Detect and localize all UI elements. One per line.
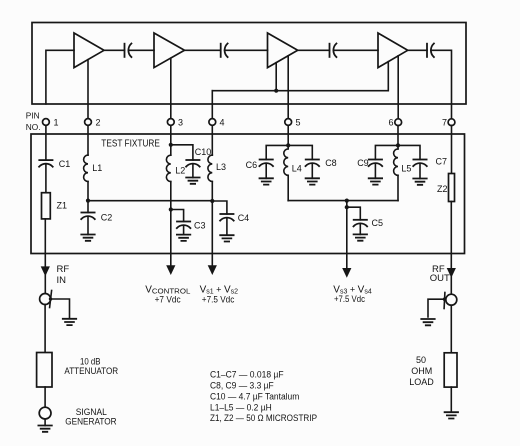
wire bias bus pin4 to U1D (212, 62, 388, 91)
inductor L4 (284, 149, 288, 175)
svg-text:4: 4 (220, 118, 225, 128)
VCONTROL direction arrow (166, 265, 175, 275)
wire junction to L2 (170, 145, 172, 155)
wire Z2 to RF OUT connector (450, 202, 452, 295)
svg-text:C7: C7 (436, 156, 448, 166)
capacitor C1 (39, 160, 53, 167)
wire U1C to pin 5 (287, 56, 289, 119)
wire U1D output to coupling cap (408, 49, 427, 51)
svg-text:L5: L5 (401, 163, 411, 173)
ground (63, 319, 76, 325)
wire U1C output to coupling cap (298, 49, 330, 51)
ground (413, 179, 426, 185)
ground (260, 178, 273, 184)
svg-text:50: 50 (416, 355, 426, 365)
wire attenuator to signal generator (44, 387, 46, 407)
wire junction to C4 (212, 201, 227, 214)
wire junction to C8 (288, 145, 312, 159)
svg-text:TEST FIXTURE: TEST FIXTURE (101, 138, 160, 149)
wire U1A output to coupling cap (104, 49, 125, 51)
wire L4 to bus (287, 175, 289, 200)
svg-text:Z1: Z1 (57, 201, 68, 211)
wire signal generator to ground (44, 419, 46, 426)
svg-text:5: 5 (296, 118, 301, 128)
wire junction to C3 (171, 210, 184, 222)
capacitor C6 (259, 160, 273, 167)
ground (220, 235, 233, 241)
capacitor C8 (306, 160, 320, 167)
pin 7 (442, 118, 455, 128)
node junction VS3 feed (345, 199, 349, 203)
svg-text:C2: C2 (101, 212, 113, 222)
wire C3 to ground (183, 225, 185, 234)
coupling capacitor (internal) (221, 44, 228, 58)
capacitor C5 (354, 220, 368, 227)
wire input from pin 1 to U1A (46, 50, 74, 104)
50 ohm load block (444, 353, 457, 387)
svg-text:GENERATOR: GENERATOR (65, 417, 117, 427)
signal generator (39, 407, 51, 419)
wire VCONTROL feed (170, 210, 172, 267)
wire L2 down across bus to C3 junction (170, 182, 172, 210)
inductor L3 (208, 155, 212, 181)
svg-text:ATTENUATOR: ATTENUATOR (64, 366, 118, 376)
capacitor C4 (220, 214, 234, 221)
wire pin 4 riser (211, 91, 213, 119)
svg-text:L4: L4 (292, 163, 302, 173)
attenuator block (37, 353, 52, 388)
coupling capacitor (internal) (427, 44, 434, 58)
svg-text:2: 2 (96, 118, 101, 128)
svg-text:Z2: Z2 (437, 184, 448, 194)
wire Z1 to RF IN connector (44, 219, 46, 294)
wire AGC bus to pin4 net (88, 200, 212, 202)
pin 3 (167, 118, 183, 128)
wire coupling cap to U1B input (128, 49, 154, 51)
node junction bus/L3/C4 (210, 199, 214, 203)
svg-text:C1: C1 (59, 159, 71, 169)
IC package outline (32, 23, 466, 105)
node junction C5 tap (345, 205, 349, 209)
inductor L2 (166, 155, 170, 181)
wire C5 to ground (359, 224, 361, 235)
svg-text:C6: C6 (246, 160, 258, 170)
ground (38, 426, 51, 432)
capacitor C3 (177, 222, 191, 229)
svg-text:C4: C4 (238, 213, 250, 223)
wire junction to C5 (347, 207, 361, 220)
node junction bus / U1C input (274, 89, 278, 93)
wire C8 to ground (311, 163, 313, 178)
capacitor C10 (186, 160, 200, 167)
wire coupling cap to U1C input (225, 49, 268, 51)
ground (306, 178, 319, 184)
wire pin 4 to L3 (211, 125, 213, 155)
svg-text:C5: C5 (372, 218, 384, 228)
node junction L1/C2/bus (86, 199, 90, 203)
svg-text:7: 7 (442, 118, 447, 128)
RF IN direction arrow (41, 266, 50, 276)
wire junction to C6 (266, 145, 288, 159)
RF OUT direction arrow (447, 268, 456, 278)
wire U1B output to coupling cap (185, 49, 221, 51)
wire U1C to bus riser (275, 63, 277, 91)
svg-text:L2: L2 (175, 166, 185, 176)
ground (81, 235, 94, 241)
svg-text:C10 — 4.7 µF Tantalum: C10 — 4.7 µF Tantalum (210, 391, 299, 401)
capacitor C9 (369, 160, 383, 167)
wire C6 to ground (265, 163, 267, 178)
coax connector RF IN (40, 291, 53, 308)
wire VS3 feed down (346, 201, 348, 270)
svg-text:OHM: OHM (411, 366, 432, 376)
wire coupling cap to U1D input (333, 49, 378, 51)
microstrip Z2 (449, 174, 455, 202)
svg-text:+7 Vdc: +7 Vdc (155, 294, 181, 304)
svg-text:Z1, Z2 — 50 Ω MICROSTRIP: Z1, Z2 — 50 Ω MICROSTRIP (210, 413, 317, 423)
ground (354, 234, 367, 240)
wire pin 1 to C1 (45, 125, 47, 160)
wire U1D to pin 6 (397, 56, 399, 119)
svg-text:NO.: NO. (26, 122, 41, 132)
svg-text:SIGNAL: SIGNAL (76, 407, 107, 417)
op-amp U1D (378, 33, 408, 68)
wire pin 7 to Z2 (451, 125, 453, 173)
capacitor C2 (81, 213, 95, 220)
wire pin 6 to junction (397, 125, 399, 148)
svg-text:C1–C7 — 0.018 µF: C1–C7 — 0.018 µF (210, 370, 284, 380)
wire C7 to ground (419, 163, 421, 178)
svg-text:OUT: OUT (430, 273, 450, 284)
wire junction to C10 (171, 145, 193, 160)
wire connector shell to ground (51, 299, 70, 317)
wire junction to C2 (87, 201, 89, 213)
pin 2 (85, 118, 101, 128)
svg-text:RF: RF (57, 264, 70, 275)
pin 4 (209, 118, 225, 128)
pin 1 (43, 118, 59, 128)
ground (177, 235, 190, 241)
svg-text:L1–L5 — 0.2 µH: L1–L5 — 0.2 µH (210, 402, 272, 412)
wire connector to load (450, 305, 452, 353)
svg-text:C8: C8 (325, 158, 337, 168)
node junction pin5/C6/C8 (286, 143, 290, 147)
wire U1A to pin 2 (87, 60, 89, 119)
wire junction to C9 (375, 145, 398, 159)
wire pin 5 to junction (287, 125, 289, 148)
ground (421, 319, 434, 325)
svg-text:L1: L1 (92, 163, 102, 173)
svg-text:+7.5 Vdc: +7.5 Vdc (202, 294, 235, 304)
ground (369, 178, 382, 184)
wire L3 through bus junction down to VS feed (211, 182, 213, 267)
wire bus L4 to L5 (288, 200, 398, 202)
svg-text:L3: L3 (216, 162, 226, 172)
svg-text:6: 6 (388, 118, 393, 128)
pin 6 (388, 118, 401, 128)
wire C10 to ground (192, 164, 194, 178)
op-amp U1C (268, 33, 298, 68)
svg-text:C8, C9 — 3.3 µF: C8, C9 — 3.3 µF (210, 381, 274, 391)
inductor L1 (84, 155, 88, 181)
wire C2 to ground (87, 216, 89, 234)
pin 5 (285, 118, 301, 128)
svg-text:LOAD: LOAD (409, 377, 434, 387)
inductor L5 (394, 149, 398, 175)
coupling capacitor (internal) (330, 44, 337, 58)
op-amp U1B (154, 33, 185, 68)
wire connector to attenuator (44, 305, 46, 353)
wire junction to C7 (398, 145, 420, 159)
ground (445, 412, 458, 418)
svg-text:C3: C3 (194, 220, 206, 230)
wire C1 to Z1 (45, 164, 47, 193)
wire load to ground (450, 387, 452, 412)
node junction pin3/C10 (169, 143, 173, 147)
notes component values (210, 370, 317, 424)
microstrip Z1 (42, 193, 51, 219)
wire connector shell to ground (428, 299, 445, 317)
capacitor C7 (413, 160, 427, 167)
coupling capacitor (internal) (125, 44, 132, 58)
test fixture enclosure (31, 134, 465, 254)
svg-text:IN: IN (57, 275, 67, 286)
op-amp U1A (74, 33, 104, 68)
VS3+VS4 direction arrow (342, 268, 351, 278)
wire C9 to ground (374, 163, 376, 178)
svg-text:PIN: PIN (26, 110, 40, 120)
svg-text:+7.5 Vdc: +7.5 Vdc (334, 294, 365, 304)
svg-text:C9: C9 (357, 158, 369, 168)
wire U1B to pin 3 (170, 58, 172, 118)
svg-text:3: 3 (178, 118, 183, 128)
wire bus up to L5 (397, 175, 399, 200)
wire pin 2 to L1 (87, 125, 89, 155)
node junction C3 tap (169, 207, 173, 211)
wire C4 to ground (226, 218, 228, 235)
VS1+VS2 direction arrow (208, 265, 217, 275)
node junction pin6/C9/C7 (396, 143, 400, 147)
coax connector RF OUT (443, 293, 457, 309)
wire pin 3 to junction (170, 125, 172, 144)
svg-text:1: 1 (54, 118, 59, 128)
wire output cap to pin 7 (431, 50, 452, 118)
ground (186, 178, 199, 184)
wire L1 to junction (87, 182, 89, 201)
